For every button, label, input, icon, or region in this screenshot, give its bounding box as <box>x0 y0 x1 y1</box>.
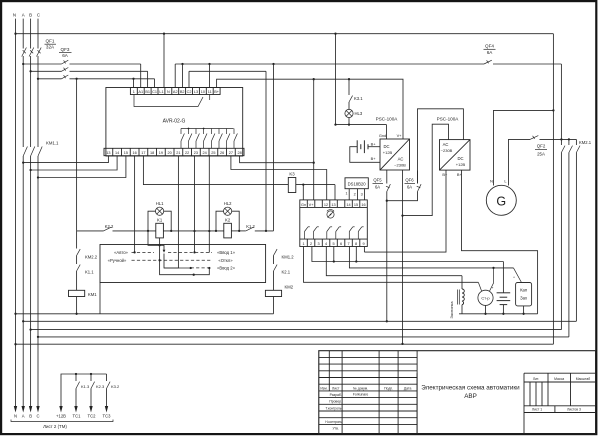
svg-text:HL2: HL2 <box>224 201 232 206</box>
svg-text:C: C <box>36 414 39 419</box>
svg-text:A2: A2 <box>173 90 178 94</box>
svg-text:Изм.: Изм. <box>320 386 327 390</box>
svg-text:28: 28 <box>238 151 242 155</box>
svg-text:Gn: Gn <box>301 203 306 207</box>
svg-text:«Ввод 2»: «Ввод 2» <box>217 266 235 271</box>
svg-text:B1: B1 <box>145 90 150 94</box>
svg-text:QF6: QF6 <box>405 178 414 183</box>
svg-text:C1: C1 <box>152 90 157 94</box>
svg-text:Ст-р: Ст-р <box>481 296 490 301</box>
svg-text:«Авто»: «Авто» <box>114 250 128 255</box>
svg-text:Н.контроль: Н.контроль <box>325 420 342 424</box>
svg-text:DS18B20: DS18B20 <box>348 182 367 187</box>
svg-text:+12В: +12В <box>56 414 66 419</box>
svg-text:Утв.: Утв. <box>332 427 339 431</box>
svg-text:K1.1: K1.1 <box>85 269 94 274</box>
svg-text:ТС1: ТС1 <box>73 414 82 419</box>
svg-text:AC: AC <box>443 142 449 147</box>
svg-text:B+: B+ <box>371 156 377 161</box>
svg-text:6A: 6A <box>487 50 494 55</box>
svg-text:B+: B+ <box>214 90 220 94</box>
svg-text:9: 9 <box>362 242 364 246</box>
svg-text:~230В: ~230В <box>394 163 406 168</box>
svg-text:QF1: QF1 <box>46 39 55 44</box>
svg-text:A1: A1 <box>138 90 143 94</box>
svg-text:K2.1: K2.1 <box>282 269 291 274</box>
svg-text:Заслонка: Заслонка <box>449 301 454 319</box>
svg-text:DC: DC <box>457 156 463 161</box>
svg-text:«Ручной»: «Ручной» <box>108 258 127 263</box>
svg-text:№ докум.: № докум. <box>353 386 368 390</box>
svg-text:A: A <box>22 414 25 419</box>
svg-text:6A: 6A <box>62 53 69 58</box>
svg-text:14: 14 <box>115 151 119 155</box>
svg-text:6: 6 <box>340 242 342 246</box>
svg-text:18: 18 <box>150 151 154 155</box>
svg-text:Лист: Лист <box>332 386 340 390</box>
svg-text:25A: 25A <box>537 152 545 157</box>
svg-text:6A: 6A <box>407 184 412 189</box>
svg-text:N: N <box>167 90 170 94</box>
svg-text:11: 11 <box>208 90 212 94</box>
svg-text:B: B <box>29 13 32 18</box>
svg-text:«Ввод 1»: «Ввод 1» <box>217 250 235 255</box>
svg-text:KM1.1: KM1.1 <box>46 141 59 146</box>
svg-text:21: 21 <box>176 151 180 155</box>
svg-text:7: 7 <box>347 242 349 246</box>
svg-text:AVR-02-G: AVR-02-G <box>163 119 186 125</box>
svg-text:K2: K2 <box>225 217 231 222</box>
svg-text:AC: AC <box>398 157 404 162</box>
svg-text:KM2.1: KM2.1 <box>579 140 592 145</box>
svg-text:Лист 1: Лист 1 <box>532 408 542 412</box>
svg-text:3: 3 <box>361 192 363 196</box>
svg-text:17: 17 <box>141 151 145 155</box>
svg-text:G: G <box>496 195 506 209</box>
svg-text:N: N <box>14 414 17 419</box>
svg-text:15: 15 <box>124 151 128 155</box>
svg-text:19: 19 <box>159 151 163 155</box>
svg-text:HL3: HL3 <box>355 111 363 116</box>
svg-text:+12В: +12В <box>456 162 466 167</box>
svg-text:Масштаб: Масштаб <box>576 377 591 381</box>
svg-text:4: 4 <box>325 242 327 246</box>
svg-text:QF5: QF5 <box>373 178 382 183</box>
svg-text:N: N <box>13 13 16 18</box>
svg-text:Подп.: Подп. <box>384 386 393 390</box>
svg-text:Масса: Масса <box>554 377 564 381</box>
svg-text:KM1: KM1 <box>88 292 97 297</box>
svg-text:1: 1 <box>346 191 348 195</box>
svg-text:QF3: QF3 <box>61 47 70 52</box>
svg-text:Т.контроль: Т.контроль <box>326 406 342 410</box>
svg-text:B+: B+ <box>442 172 448 177</box>
svg-text:26: 26 <box>220 151 224 155</box>
svg-text:K3.1: K3.1 <box>354 96 363 101</box>
svg-text:Дата: Дата <box>404 386 412 390</box>
svg-text:V+: V+ <box>309 203 315 207</box>
svg-text:Gnd: Gnd <box>379 133 386 138</box>
svg-text:HL1: HL1 <box>156 201 164 206</box>
svg-text:C: C <box>37 13 40 18</box>
svg-text:16: 16 <box>361 203 365 207</box>
svg-text:5: 5 <box>332 242 334 246</box>
svg-text:C2: C2 <box>187 90 192 94</box>
svg-text:24: 24 <box>203 151 207 155</box>
svg-text:N: N <box>490 179 493 184</box>
svg-text:KM2: KM2 <box>285 285 294 290</box>
svg-text:~230В: ~230В <box>441 148 453 153</box>
svg-text:B: B <box>29 414 32 419</box>
svg-text:27: 27 <box>229 151 233 155</box>
svg-text:Зах: Зах <box>520 296 528 301</box>
svg-text:«Откл»: «Откл» <box>218 258 233 263</box>
svg-text:Лист 2 (ТМ): Лист 2 (ТМ) <box>43 424 67 429</box>
svg-text:K2.2: K2.2 <box>105 224 114 229</box>
svg-text:Кап: Кап <box>520 288 527 293</box>
svg-text:KM1.2: KM1.2 <box>282 254 295 259</box>
svg-text:B+: B+ <box>371 141 377 146</box>
svg-text:K1.2: K1.2 <box>246 224 255 229</box>
svg-text:25: 25 <box>211 151 215 155</box>
svg-text:10: 10 <box>201 90 205 94</box>
svg-text:K1: K1 <box>157 217 163 222</box>
svg-text:22: 22 <box>185 151 189 155</box>
svg-text:Электрическая схема автоматики: Электрическая схема автоматики <box>421 385 520 392</box>
svg-text:K1.3: K1.3 <box>81 384 90 389</box>
svg-text:2: 2 <box>310 242 312 246</box>
svg-text:K3: K3 <box>289 172 295 177</box>
svg-text:АВР: АВР <box>464 393 477 400</box>
svg-text:1: 1 <box>302 242 304 246</box>
svg-text:32A: 32A <box>46 45 55 50</box>
svg-text:6A: 6A <box>375 184 380 189</box>
svg-text:Провер.: Провер. <box>329 400 342 404</box>
svg-text:ТС3: ТС3 <box>103 414 112 419</box>
svg-text:Листов 3: Листов 3 <box>567 408 581 412</box>
svg-text:23: 23 <box>194 151 198 155</box>
svg-text:L3: L3 <box>194 90 198 94</box>
svg-text:1: 1 <box>133 90 135 94</box>
svg-text:PSC-100A: PSC-100A <box>437 117 460 122</box>
svg-text:14: 14 <box>346 203 350 207</box>
svg-text:2: 2 <box>354 192 356 196</box>
svg-text:A: A <box>22 13 25 18</box>
svg-text:Forkunare: Forkunare <box>353 393 369 397</box>
svg-text:13: 13 <box>106 151 110 155</box>
svg-text:KM2.2: KM2.2 <box>85 254 98 259</box>
svg-text:15: 15 <box>354 203 358 207</box>
svg-text:3: 3 <box>317 242 319 246</box>
svg-text:12: 12 <box>324 203 328 207</box>
svg-text:DC: DC <box>383 144 389 149</box>
svg-text:Лит.: Лит. <box>533 377 539 381</box>
svg-text:8: 8 <box>355 242 357 246</box>
svg-text:L1: L1 <box>159 90 163 94</box>
svg-text:Разраб.: Разраб. <box>330 393 342 397</box>
svg-text:20: 20 <box>168 151 172 155</box>
svg-text:16: 16 <box>133 151 137 155</box>
svg-text:QF4: QF4 <box>485 44 494 49</box>
svg-text:K2.3: K2.3 <box>96 384 105 389</box>
svg-text:13: 13 <box>331 203 335 207</box>
svg-text:V+: V+ <box>397 133 403 138</box>
svg-text:+12В: +12В <box>383 150 393 155</box>
svg-text:QF2: QF2 <box>537 144 546 149</box>
svg-text:K3.2: K3.2 <box>111 384 120 389</box>
svg-text:PSC-100A: PSC-100A <box>376 117 399 122</box>
svg-text:ТС2: ТС2 <box>88 414 97 419</box>
svg-text:B2: B2 <box>180 90 185 94</box>
